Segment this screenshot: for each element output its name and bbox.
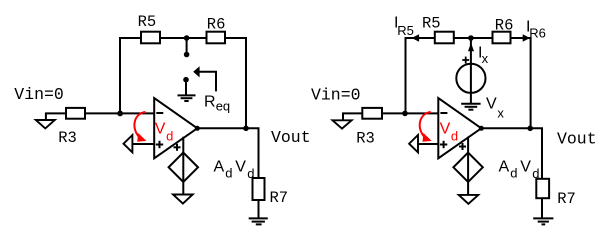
svg-text:V: V [486, 96, 497, 113]
svg-text:R: R [204, 94, 216, 111]
svg-text:R5: R5 [397, 23, 414, 38]
svg-text:d: d [532, 166, 539, 181]
svg-text:d: d [451, 128, 458, 143]
svg-text:R5: R5 [138, 13, 157, 31]
svg-text:V: V [440, 120, 451, 137]
svg-text:d: d [247, 166, 254, 181]
svg-text:d: d [510, 166, 517, 181]
svg-text:R5: R5 [422, 14, 441, 32]
svg-text:R6: R6 [529, 26, 546, 41]
svg-text:R3: R3 [356, 130, 375, 148]
svg-text:V: V [520, 159, 531, 176]
svg-text:R6: R6 [495, 16, 514, 34]
svg-text:d: d [225, 166, 232, 181]
svg-text:d: d [166, 128, 173, 143]
svg-text:R7: R7 [270, 189, 289, 207]
svg-text:R7: R7 [557, 190, 576, 208]
svg-text:eq: eq [216, 99, 230, 114]
svg-text:Vout: Vout [557, 130, 597, 149]
svg-text:x: x [482, 51, 489, 66]
svg-text:Vout: Vout [271, 128, 311, 147]
svg-text:R6: R6 [207, 16, 226, 34]
svg-text:A: A [499, 159, 510, 176]
svg-text:A: A [214, 159, 225, 176]
svg-text:Vin=0: Vin=0 [14, 85, 64, 104]
svg-text:V: V [155, 120, 166, 137]
svg-text:R3: R3 [58, 129, 77, 147]
svg-text:x: x [497, 105, 504, 120]
svg-text:V: V [235, 159, 246, 176]
svg-text:Vin=0: Vin=0 [311, 86, 361, 105]
